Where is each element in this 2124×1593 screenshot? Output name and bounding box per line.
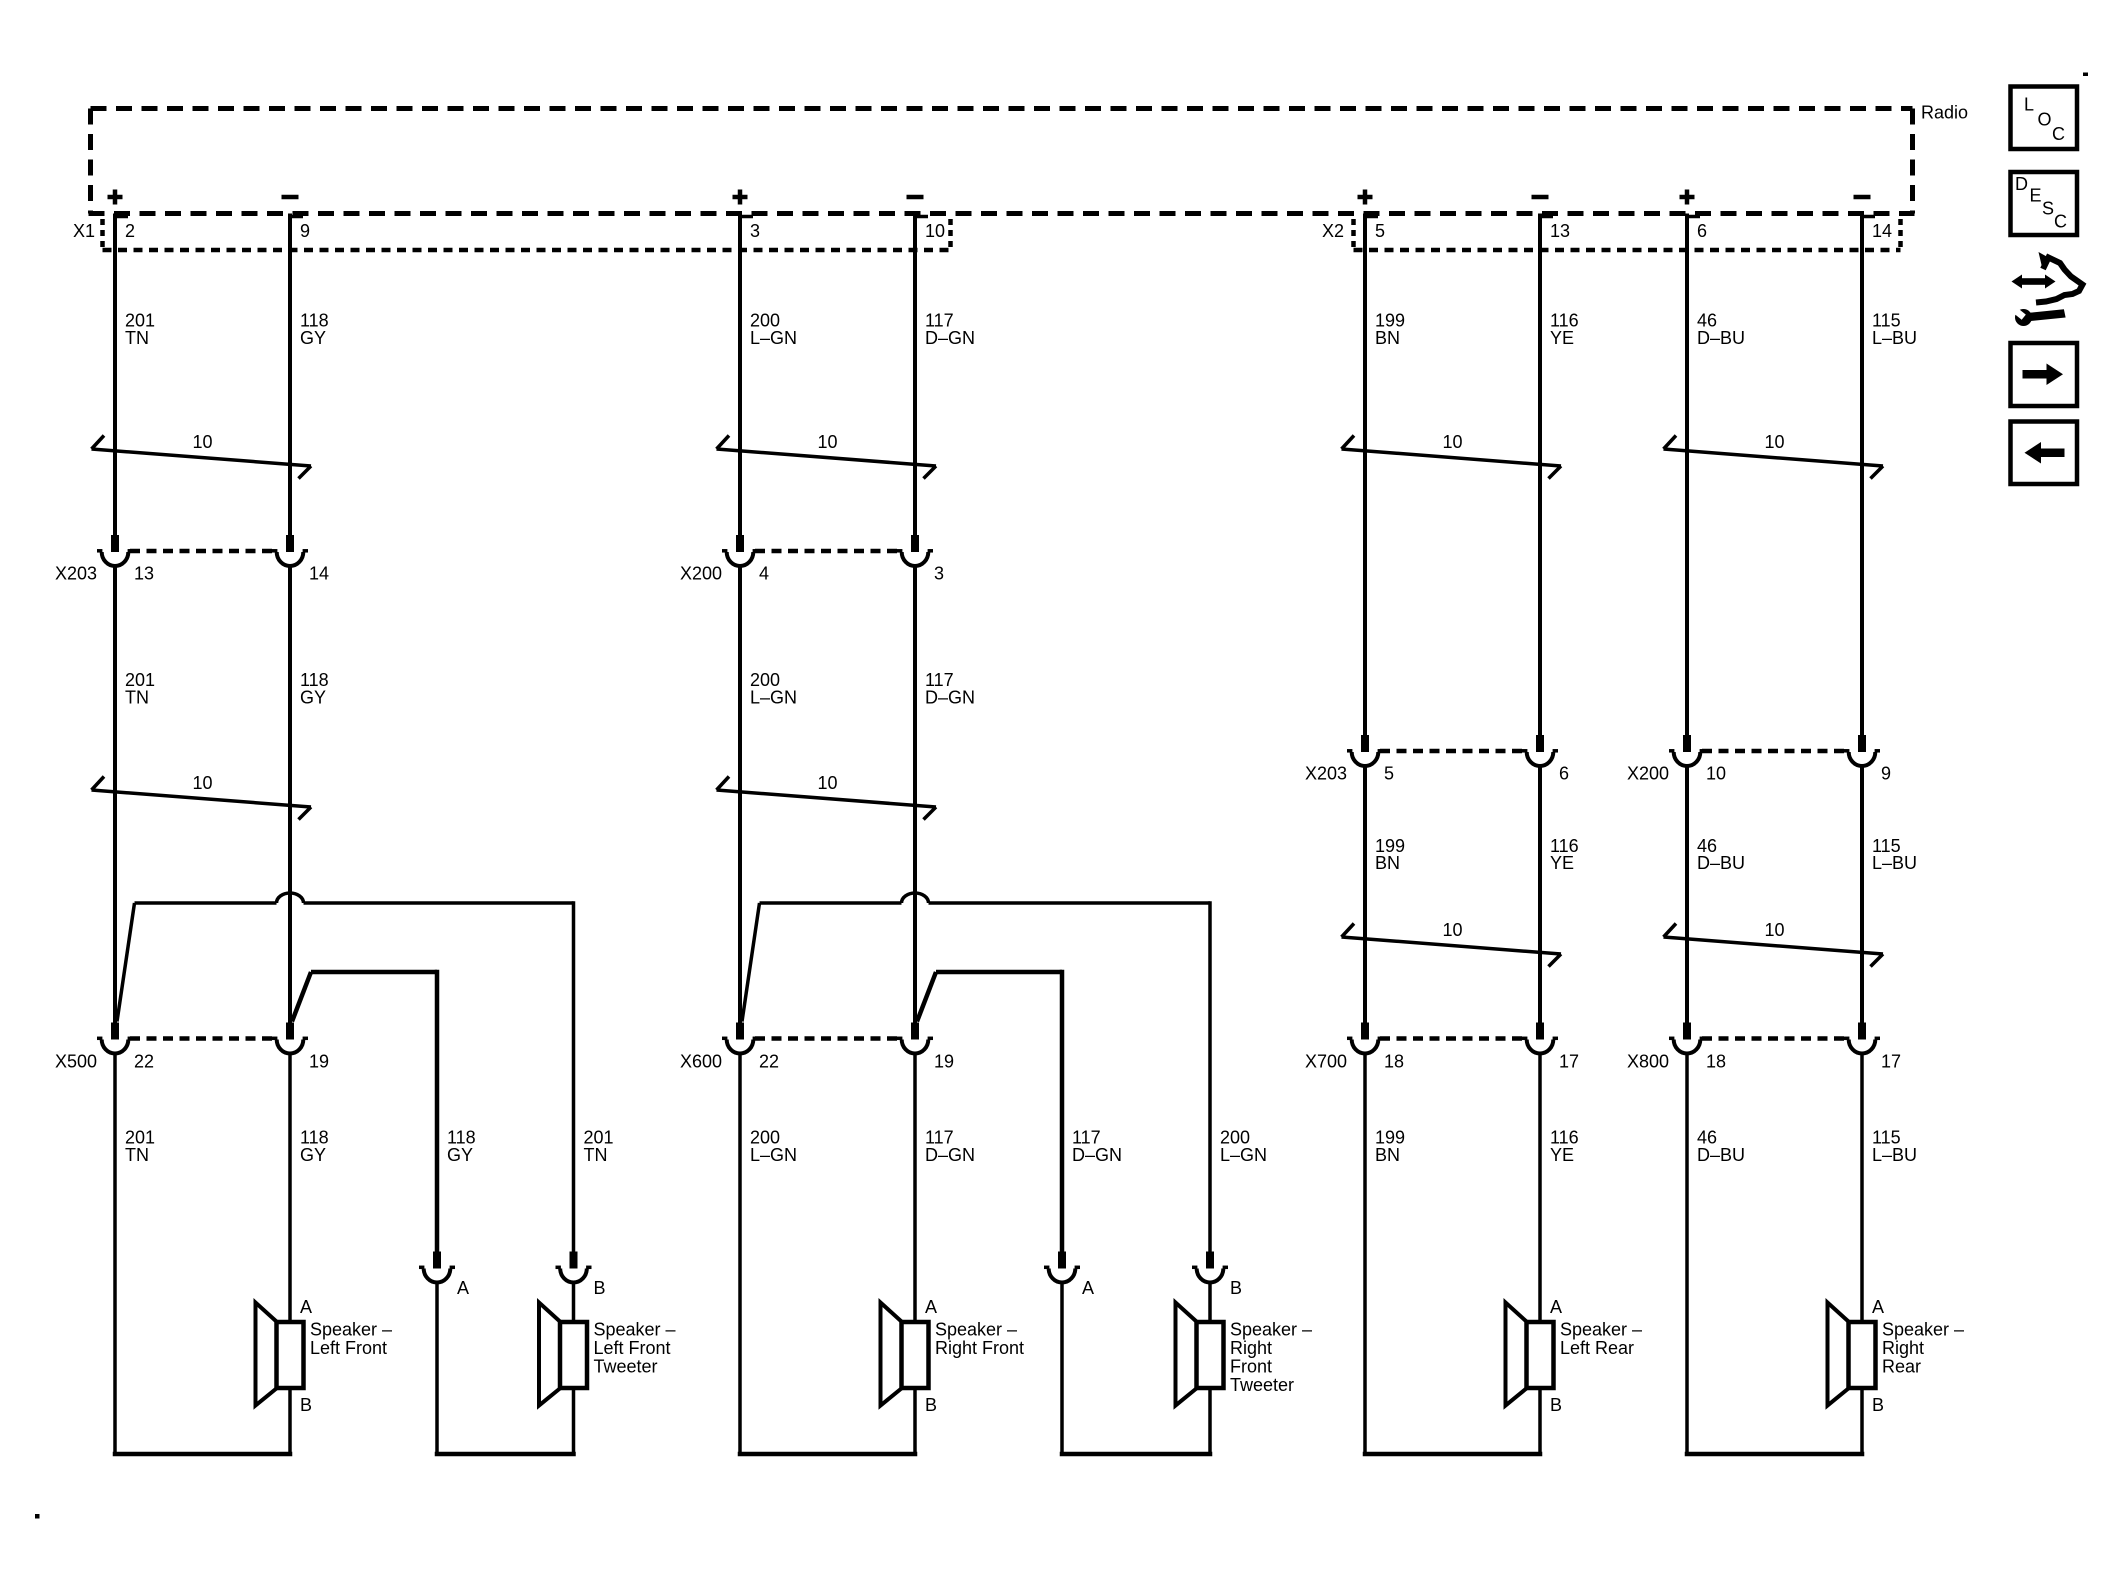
- svg-text:A: A: [1550, 1297, 1562, 1317]
- wire label 117 D–GN: [925, 311, 975, 349]
- pin 13 of X2: [1550, 221, 1570, 241]
- wire speaker Left Front loop bottom: [113, 1452, 293, 1457]
- wire label 118 GY: [300, 311, 329, 349]
- svg-text:5: 5: [1375, 221, 1385, 241]
- icon box LOC: [2011, 87, 2078, 150]
- wire label 46 D–BU (2nd): [1697, 836, 1745, 873]
- wire 115 L–BU (X200-9 to X800-17): [1860, 765, 1864, 1025]
- svg-text:10: 10: [1442, 920, 1462, 940]
- svg-text:B: B: [300, 1395, 312, 1415]
- wire label 118 GY (3rd): [300, 1128, 329, 1166]
- svg-text:D–GN: D–GN: [1072, 1145, 1122, 1165]
- svg-text:GY: GY: [300, 688, 326, 708]
- wire tweeter A to loop: [435, 1281, 439, 1454]
- wire X500-22 to speaker Left Front B: [113, 1052, 117, 1454]
- svg-text:L–GN: L–GN: [750, 1145, 797, 1165]
- svg-text:D–GN: D–GN: [925, 688, 975, 708]
- svg-text:17: 17: [1559, 1052, 1579, 1072]
- svg-text:A: A: [300, 1297, 312, 1317]
- wire 199 BN (X2-5 to X203-5): [1365, 214, 1378, 738]
- svg-text:Left Rear: Left Rear: [1560, 1338, 1634, 1358]
- pin 3 of X1: [750, 221, 760, 241]
- svg-text:17: 17: [1881, 1052, 1901, 1072]
- wire label 118 GY (2nd): [300, 670, 329, 708]
- wire label 200 L–GN (2nd): [750, 670, 797, 708]
- twisted-pair symbol (10) upper Right Front: [717, 432, 937, 479]
- wire 116 YE (X2-13 to X203-6): [1540, 214, 1553, 738]
- wire 117 D–GN (X1-10 to X200-3): [915, 214, 928, 538]
- svg-text:YE: YE: [1550, 1145, 1574, 1165]
- in-line connector Left Front Tweeter pin B: [556, 1252, 606, 1299]
- wire 46 D–BU (X200-10 to X800-18): [1685, 765, 1689, 1025]
- wire branch 117 D–GN to tweeter A: [917, 970, 1062, 1254]
- svg-text:B: B: [925, 1395, 937, 1415]
- svg-text:9: 9: [1881, 764, 1891, 784]
- svg-text:S: S: [2042, 199, 2054, 219]
- wire label 115 L–BU: [1872, 311, 1917, 349]
- svg-text:X203: X203: [1305, 764, 1347, 784]
- svg-text:X203: X203: [55, 564, 97, 584]
- wire label 117 D–GN (3rd): [925, 1128, 975, 1166]
- svg-text:BN: BN: [1375, 1145, 1400, 1165]
- svg-text:5: 5: [1384, 764, 1394, 784]
- wire 118 GY (X203-14 to X500-19): [288, 565, 292, 1025]
- polarity − at radio pin 13: [1532, 195, 1549, 200]
- polarity + at radio pin 5: [1358, 190, 1373, 205]
- wire X700-18 to speaker Left Rear B: [1363, 1052, 1367, 1454]
- svg-text:10: 10: [925, 221, 945, 241]
- wire label 115 L–BU (3rd): [1872, 1128, 1917, 1166]
- svg-text:10: 10: [817, 432, 837, 452]
- icon box arrow right: [2011, 343, 2078, 406]
- speaker – Right Front: [881, 1297, 1025, 1415]
- wire label 199 BN (3rd): [1375, 1128, 1405, 1166]
- svg-text:Tweeter: Tweeter: [1230, 1375, 1294, 1395]
- svg-text:19: 19: [309, 1052, 329, 1072]
- icon box DESC: [2011, 172, 2078, 235]
- polarity − at radio pin 14: [1854, 195, 1871, 200]
- svg-text:BN: BN: [1375, 328, 1400, 348]
- wire label 200 L–GN: [750, 311, 797, 349]
- wire X700-17 to speaker Left Rear A: [1538, 1052, 1542, 1454]
- connector X2 (dotted box on radio): [1322, 219, 1901, 252]
- wire tweeter A to loop: [1060, 1281, 1064, 1454]
- in-line connector X800 pins 18/17: [1669, 1023, 1880, 1054]
- svg-text:14: 14: [309, 564, 329, 584]
- wire branch 118 GY to tweeter A: [292, 970, 437, 1254]
- svg-text:18: 18: [1706, 1052, 1726, 1072]
- svg-text:D–GN: D–GN: [925, 328, 975, 348]
- wire 200 L–GN (X200-4 to X600-22): [738, 565, 742, 1025]
- wire X800-18 to speaker Right Rear B: [1685, 1052, 1689, 1454]
- svg-text:C: C: [2052, 124, 2065, 144]
- svg-text:22: 22: [134, 1052, 154, 1072]
- wire label 201 TN (tweeter B): [584, 1128, 614, 1166]
- twisted-pair symbol (10) upper Left Front: [92, 432, 312, 479]
- in-line connector X200 pins 10/9: [1669, 735, 1880, 766]
- in-line connector X203 pins 5/6: [1347, 735, 1558, 766]
- svg-text:D–BU: D–BU: [1697, 328, 1745, 348]
- label Radio: [1921, 103, 1968, 123]
- labels X203 5 6: [1305, 764, 1569, 784]
- polarity − at radio pin 10: [907, 195, 924, 200]
- svg-text:D–BU: D–BU: [1697, 853, 1745, 873]
- pin 14 of X2: [1872, 221, 1892, 241]
- svg-text:YE: YE: [1550, 853, 1574, 873]
- wire 118 GY (X1-9 to X203-14): [290, 214, 303, 538]
- speaker – Left Front: [256, 1297, 393, 1415]
- labels X500 22 19: [55, 1052, 329, 1072]
- svg-text:Rear: Rear: [1882, 1357, 1921, 1377]
- wire label 116 YE (2nd): [1550, 836, 1579, 873]
- svg-text:13: 13: [134, 564, 154, 584]
- labels X203 13 14: [55, 564, 329, 584]
- speaker – Left Front Tweeter: [539, 1303, 676, 1406]
- svg-text:B: B: [1550, 1395, 1562, 1415]
- wire branch 200 L–GN to tweeter B: [742, 893, 1210, 1254]
- wire X600-19 to speaker Right Front A: [913, 1052, 917, 1454]
- svg-text:A: A: [1082, 1278, 1094, 1298]
- in-line connector X200 pins 4/3: [722, 535, 933, 566]
- svg-text:10: 10: [1764, 920, 1784, 940]
- pin 5 of X2: [1375, 221, 1385, 241]
- svg-text:B: B: [594, 1278, 606, 1298]
- speaker – Left Rear: [1506, 1297, 1643, 1415]
- svg-text:Speaker –: Speaker –: [1230, 1320, 1312, 1340]
- connector X1 (dotted box on radio): [73, 219, 951, 252]
- speaker – Right Rear: [1828, 1297, 1965, 1415]
- svg-text:L–GN: L–GN: [750, 688, 797, 708]
- wire 200 L–GN (X1-3 to X200-4): [740, 214, 753, 538]
- svg-text:GY: GY: [447, 1145, 473, 1165]
- svg-text:X700: X700: [1305, 1052, 1347, 1072]
- svg-text:19: 19: [934, 1052, 954, 1072]
- svg-text:Front: Front: [1230, 1357, 1272, 1377]
- in-line connector X500 pins 22/19: [97, 1023, 308, 1054]
- wire label 46 D–BU: [1697, 311, 1745, 349]
- svg-text:Speaker –: Speaker –: [1882, 1320, 1964, 1340]
- speaker – Right Front Tweeter: [1176, 1303, 1313, 1406]
- wire 201 TN (X203-13 to X500-22): [113, 565, 117, 1025]
- wire X800-17 to speaker Right Rear A: [1860, 1052, 1864, 1454]
- twisted-pair symbol (10) lower Right Rear: [1664, 920, 1884, 967]
- wire label 201 TN (3rd): [125, 1128, 155, 1166]
- icon box arrow left: [2011, 422, 2078, 485]
- svg-text:Speaker –: Speaker –: [594, 1320, 676, 1340]
- svg-text:14: 14: [1872, 221, 1892, 241]
- svg-text:18: 18: [1384, 1052, 1404, 1072]
- wire label 118 GY (tweeter A): [447, 1128, 476, 1166]
- wire tweeter loop bottom: [1060, 1452, 1213, 1457]
- svg-text:TN: TN: [125, 1145, 149, 1165]
- svg-text:22: 22: [759, 1052, 779, 1072]
- wire 199 BN (X203-5 to X700-18): [1363, 765, 1367, 1025]
- svg-text:Right: Right: [1882, 1338, 1924, 1358]
- svg-text:L–BU: L–BU: [1872, 328, 1917, 348]
- svg-text:L–GN: L–GN: [750, 328, 797, 348]
- svg-text:10: 10: [192, 773, 212, 793]
- polarity − at radio pin 9: [282, 195, 299, 200]
- wire label 46 D–BU (3rd): [1697, 1128, 1745, 1166]
- svg-text:9: 9: [300, 221, 310, 241]
- svg-text:Right: Right: [1230, 1338, 1272, 1358]
- pin 9 of X1: [300, 221, 310, 241]
- wire 117 D–GN (X200-3 to X600-19): [913, 565, 917, 1025]
- twisted-pair symbol (10) upper Right Rear: [1664, 432, 1884, 479]
- labels X200 4 3: [680, 564, 944, 584]
- twisted-pair symbol (10) lower Left Front: [92, 773, 312, 820]
- svg-text:E: E: [2030, 186, 2042, 206]
- polarity + at radio pin 6: [1680, 190, 1695, 205]
- svg-text:X800: X800: [1627, 1052, 1669, 1072]
- svg-text:10: 10: [1442, 432, 1462, 452]
- pin 10 of X1: [925, 221, 945, 241]
- svg-text:TN: TN: [584, 1145, 608, 1165]
- svg-text:10: 10: [1764, 432, 1784, 452]
- wire label 200 L–GN (3rd): [750, 1128, 797, 1166]
- wire 115 L–BU (X2-14 to X200-9): [1862, 214, 1875, 738]
- wire label 199 BN (2nd): [1375, 836, 1405, 873]
- wire speaker Left Rear loop bottom: [1363, 1452, 1543, 1457]
- svg-text:D–BU: D–BU: [1697, 1145, 1745, 1165]
- svg-text:10: 10: [817, 773, 837, 793]
- polarity + at radio pin 3: [733, 190, 748, 205]
- wire 46 D–BU (X2-6 to X200-10): [1687, 214, 1700, 738]
- in-line connector X700 pins 18/17: [1347, 1023, 1558, 1054]
- pin 2 of X1: [125, 221, 135, 241]
- wire tweeter B to speaker: [572, 1281, 576, 1454]
- labels X800 18 17: [1627, 1052, 1901, 1072]
- wire label 201 TN (2nd): [125, 670, 155, 708]
- svg-text:YE: YE: [1550, 328, 1574, 348]
- svg-text:X1: X1: [73, 221, 95, 241]
- svg-text:GY: GY: [300, 1145, 326, 1165]
- svg-text:L: L: [2024, 95, 2034, 115]
- svg-text:L–GN: L–GN: [1220, 1145, 1267, 1165]
- svg-text:10: 10: [1706, 764, 1726, 784]
- pin 6 of X2: [1697, 221, 1707, 241]
- in-line connector X203 pins 13/14: [97, 535, 308, 566]
- svg-text:Right Front: Right Front: [935, 1338, 1024, 1358]
- wire branch 201 TN to tweeter B: [117, 893, 574, 1254]
- svg-text:10: 10: [192, 432, 212, 452]
- svg-text:D: D: [2015, 174, 2028, 194]
- svg-text:3: 3: [934, 564, 944, 584]
- svg-text:TN: TN: [125, 328, 149, 348]
- twisted-pair symbol (10) lower Left Rear: [1342, 920, 1562, 967]
- svg-text:D–GN: D–GN: [925, 1145, 975, 1165]
- svg-text:A: A: [457, 1278, 469, 1298]
- wire label 117 D–GN (2nd): [925, 670, 975, 708]
- svg-text:L–BU: L–BU: [1872, 853, 1917, 873]
- wire tweeter B to speaker: [1208, 1281, 1212, 1454]
- wire label 116 YE (3rd): [1550, 1128, 1579, 1166]
- svg-text:6: 6: [1559, 764, 1569, 784]
- twisted-pair symbol (10) lower Right Front: [717, 773, 937, 820]
- wire tweeter loop bottom: [435, 1452, 576, 1457]
- svg-text:3: 3: [750, 221, 760, 241]
- svg-text:GY: GY: [300, 328, 326, 348]
- svg-text:Radio: Radio: [1921, 103, 1968, 123]
- labels X600 22 19: [680, 1052, 954, 1072]
- polarity + at radio pin 2: [108, 190, 123, 205]
- wire X500-19 to speaker Left Front A: [288, 1052, 292, 1454]
- in-line connector Right Front Tweeter pin B: [1192, 1252, 1242, 1299]
- svg-text:O: O: [2038, 110, 2052, 130]
- svg-text:Tweeter: Tweeter: [594, 1357, 658, 1377]
- svg-text:A: A: [1872, 1297, 1884, 1317]
- twisted-pair symbol (10) upper Left Rear: [1342, 432, 1562, 479]
- wire speaker Right Front loop bottom: [738, 1452, 918, 1457]
- radio (dashed outline box): [89, 109, 1915, 214]
- wire label 199 BN: [1375, 311, 1405, 349]
- wire label 201 TN: [125, 311, 155, 349]
- wire label 117 D–GN (tweeter A): [1072, 1128, 1122, 1166]
- svg-text:B: B: [1230, 1278, 1242, 1298]
- svg-text:X500: X500: [55, 1052, 97, 1072]
- speck bottom left: [35, 1514, 40, 1519]
- svg-text:2: 2: [125, 221, 135, 241]
- wire 201 TN (X1-2 to X203-13): [115, 214, 128, 538]
- svg-text:4: 4: [759, 564, 769, 584]
- svg-text:Speaker –: Speaker –: [1560, 1320, 1642, 1340]
- svg-text:C: C: [2054, 212, 2067, 232]
- svg-text:X2: X2: [1322, 221, 1344, 241]
- labels X200 10 9: [1627, 764, 1891, 784]
- wire 116 YE (X203-6 to X700-17): [1538, 765, 1542, 1025]
- svg-text:TN: TN: [125, 688, 149, 708]
- in-line connector X600 pins 22/19: [722, 1023, 933, 1054]
- icon service info (arrows and wrench): [2011, 252, 2083, 326]
- wire label 200 L–GN (tweeter B): [1220, 1128, 1267, 1166]
- svg-text:Speaker –: Speaker –: [310, 1320, 392, 1340]
- in-line connector Right Front Tweeter pin A: [1044, 1252, 1094, 1299]
- wire speaker Right Rear loop bottom: [1685, 1452, 1865, 1457]
- svg-text:Left Front: Left Front: [310, 1338, 387, 1358]
- in-line connector Left Front Tweeter pin A: [419, 1252, 469, 1299]
- wire X600-22 to speaker Right Front B: [738, 1052, 742, 1454]
- svg-text:BN: BN: [1375, 853, 1400, 873]
- svg-text:X200: X200: [1627, 764, 1669, 784]
- svg-text:6: 6: [1697, 221, 1707, 241]
- svg-text:L–BU: L–BU: [1872, 1145, 1917, 1165]
- speck top right: [2083, 73, 2088, 77]
- labels X700 18 17: [1305, 1052, 1579, 1072]
- svg-text:13: 13: [1550, 221, 1570, 241]
- svg-text:X600: X600: [680, 1052, 722, 1072]
- wire label 116 YE: [1550, 311, 1579, 349]
- svg-text:A: A: [925, 1297, 937, 1317]
- svg-text:X200: X200: [680, 564, 722, 584]
- wire label 115 L–BU (2nd): [1872, 836, 1917, 873]
- svg-text:B: B: [1872, 1395, 1884, 1415]
- svg-text:Speaker –: Speaker –: [935, 1320, 1017, 1340]
- svg-text:Left Front: Left Front: [594, 1338, 671, 1358]
